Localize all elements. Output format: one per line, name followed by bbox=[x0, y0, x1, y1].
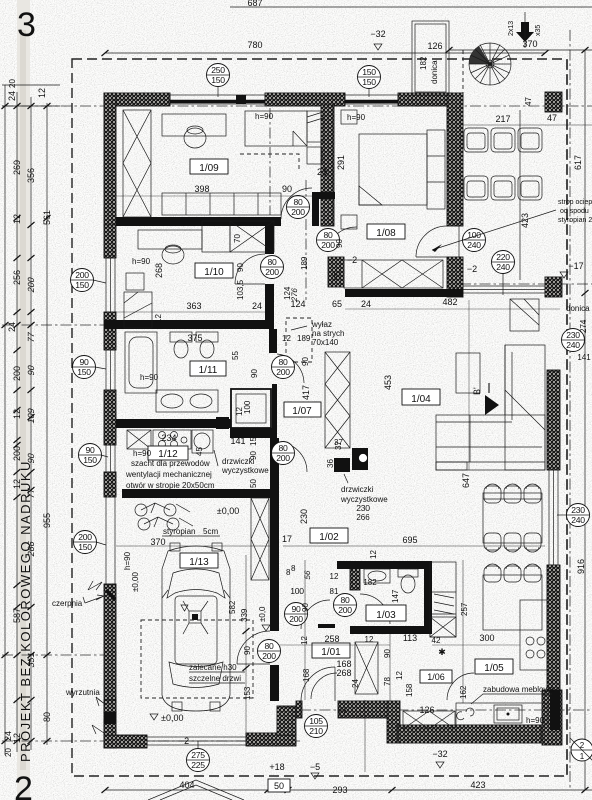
svg-text:105: 105 bbox=[309, 716, 323, 726]
garage bottom wall left stub bbox=[104, 735, 147, 748]
circle label 220/240 bbox=[492, 251, 515, 296]
svg-text:24: 24 bbox=[7, 91, 17, 101]
room label 1/01 bbox=[312, 643, 350, 658]
axis dash-dot left y325 bbox=[2, 324, 105, 326]
svg-text:582: 582 bbox=[228, 600, 237, 614]
svg-text:80: 80 bbox=[268, 257, 277, 267]
svg-text:drzwiczki: drzwiczki bbox=[222, 457, 255, 466]
svg-text:257: 257 bbox=[460, 602, 469, 616]
svg-text:268: 268 bbox=[336, 668, 351, 678]
door 1/03 bbox=[360, 594, 390, 624]
svg-text:wentylacji mechanicznej: wentylacji mechanicznej bbox=[125, 470, 212, 479]
living room coffee table bbox=[456, 353, 480, 393]
svg-text:65: 65 bbox=[333, 271, 342, 280]
svg-text:h=90: h=90 bbox=[255, 112, 274, 121]
svg-text:182: 182 bbox=[363, 578, 377, 587]
kitchen bottom wall step bbox=[387, 701, 400, 743]
bathroom 1/03 top wall bbox=[337, 561, 432, 569]
circle label 80/200 door 1/08 bbox=[317, 229, 340, 252]
1/09 wardrobe with X bbox=[123, 110, 151, 217]
svg-text:PROJEKT BEZ KOLOROWEGO NADRUKU: PROJEKT BEZ KOLOROWEGO NADRUKU bbox=[18, 460, 33, 762]
corridor left wall below door bbox=[272, 472, 277, 498]
1/09 nightstand bbox=[307, 147, 322, 164]
svg-text:90: 90 bbox=[86, 445, 95, 455]
svg-text:200: 200 bbox=[276, 367, 290, 377]
svg-text:−5: −5 bbox=[310, 762, 320, 772]
svg-text:80: 80 bbox=[279, 357, 288, 367]
svg-text:wyczystkowe: wyczystkowe bbox=[221, 466, 269, 475]
garage shaft X tall bbox=[251, 498, 269, 580]
bottom gable sketch bbox=[148, 780, 244, 800]
1/11 wc bbox=[170, 332, 192, 342]
svg-text:339: 339 bbox=[240, 608, 249, 622]
living room sideboard bbox=[510, 299, 539, 331]
svg-text:55: 55 bbox=[231, 351, 240, 360]
left exterior wall garage pier mid bbox=[104, 584, 116, 748]
svg-text:150: 150 bbox=[211, 75, 225, 85]
svg-text:donica: donica bbox=[566, 304, 590, 313]
left exterior wall pier between windows bbox=[104, 312, 116, 350]
right dim chain 916 bbox=[584, 293, 586, 790]
left chain ticks bbox=[2, 103, 9, 109]
svg-text:B': B' bbox=[472, 387, 482, 395]
circle label 275/225 garage door bbox=[187, 741, 210, 772]
svg-text:12: 12 bbox=[12, 214, 22, 224]
kitchen table 2 bbox=[483, 575, 542, 630]
svg-text:−2: −2 bbox=[179, 736, 189, 746]
door swing 1/06 kitchen bbox=[447, 673, 474, 700]
window 150/150 top (1/08) bbox=[345, 95, 398, 104]
door 1/06 to 1/05 bbox=[311, 673, 337, 699]
svg-text:1/08: 1/08 bbox=[376, 228, 396, 239]
terrace edge line x459 bbox=[458, 106, 460, 284]
svg-text:1/02: 1/02 bbox=[319, 532, 339, 543]
svg-text:80: 80 bbox=[42, 712, 52, 722]
stair arrow black bbox=[516, 22, 534, 42]
section circle 2/1 bottom right bbox=[571, 739, 592, 761]
room label 1/10 bbox=[195, 263, 233, 278]
room label 1/04 bbox=[402, 389, 440, 405]
svg-text:3: 3 bbox=[17, 6, 36, 44]
garage dashed slab bbox=[141, 620, 253, 698]
interior dim chain 1/06 x390 bbox=[389, 634, 391, 701]
pier left of 1/08 wardrobe bbox=[328, 257, 344, 287]
svg-text:5cm: 5cm bbox=[203, 527, 218, 536]
1/09 chair bbox=[184, 128, 206, 148]
svg-text:drzwiczki: drzwiczki bbox=[341, 485, 374, 494]
svg-text:24: 24 bbox=[3, 731, 13, 741]
svg-text:12: 12 bbox=[282, 334, 291, 343]
svg-text:✱: ✱ bbox=[438, 647, 446, 657]
svg-text:h=90: h=90 bbox=[347, 113, 366, 122]
circle label 80/200 door 1/11 bbox=[272, 356, 295, 379]
living room sofa bbox=[436, 345, 545, 470]
svg-text:±0,00: ±0,00 bbox=[131, 571, 140, 592]
svg-text:182: 182 bbox=[419, 56, 428, 70]
svg-text:291: 291 bbox=[336, 155, 346, 170]
svg-text:780: 780 bbox=[247, 40, 262, 50]
garage car bbox=[162, 543, 230, 711]
svg-text:styropian 2: styropian 2 bbox=[558, 217, 592, 224]
room label 1/08 bbox=[367, 224, 405, 239]
svg-text:561: 561 bbox=[42, 210, 52, 225]
svg-text:2: 2 bbox=[14, 770, 33, 800]
svg-text:275: 275 bbox=[191, 750, 205, 760]
circle label 105/210 entrance bbox=[305, 715, 328, 738]
svg-text:12: 12 bbox=[330, 572, 339, 581]
svg-text:81: 81 bbox=[330, 587, 339, 596]
living dim line x469 bbox=[468, 300, 470, 470]
svg-text:78: 78 bbox=[383, 677, 392, 686]
svg-text:90: 90 bbox=[236, 263, 245, 272]
flue circle bbox=[359, 454, 368, 463]
svg-text:strop ocieplony: strop ocieplony bbox=[558, 199, 592, 206]
top dimension 780 bbox=[105, 52, 545, 54]
svg-text:113: 113 bbox=[403, 633, 417, 643]
svg-text:h=90: h=90 bbox=[140, 373, 159, 382]
svg-text:24: 24 bbox=[7, 322, 17, 332]
interior dim chain garage x246 bbox=[245, 555, 247, 735]
svg-text:230: 230 bbox=[356, 503, 370, 513]
window 200/150 left (1/10) bbox=[106, 258, 115, 312]
svg-text:240: 240 bbox=[571, 515, 585, 525]
svg-text:80: 80 bbox=[341, 595, 350, 605]
1/10 desk bbox=[138, 230, 202, 249]
left dim chain lines bbox=[4, 85, 6, 755]
svg-text:1/09: 1/09 bbox=[199, 163, 219, 174]
door 1/07 to 1/02 bbox=[277, 442, 307, 472]
svg-text:453: 453 bbox=[383, 375, 393, 390]
svg-text:217: 217 bbox=[495, 114, 510, 124]
svg-text:220: 220 bbox=[496, 252, 510, 262]
svg-text:donica: donica bbox=[430, 60, 439, 84]
svg-text:150: 150 bbox=[362, 67, 376, 77]
svg-text:647: 647 bbox=[461, 473, 471, 488]
circle label 230/240 right up bbox=[562, 329, 585, 352]
svg-text:na strych: na strych bbox=[312, 329, 344, 338]
svg-text:12: 12 bbox=[365, 635, 374, 644]
svg-text:−32: −32 bbox=[370, 29, 385, 39]
czerpnia grille left garage bbox=[106, 497, 115, 585]
top cut-off dimension line bbox=[230, 6, 592, 8]
attic hatch dashed bbox=[286, 318, 312, 362]
svg-text:−17: −17 bbox=[568, 261, 583, 271]
svg-text:126: 126 bbox=[427, 41, 442, 51]
interior dim chain porch x365 bbox=[364, 700, 366, 772]
svg-text:150: 150 bbox=[83, 455, 97, 465]
bathroom 1/03 bottom wall bbox=[350, 626, 432, 634]
svg-text:225: 225 bbox=[191, 760, 205, 770]
axis dash-dot bottom wall bbox=[2, 740, 300, 742]
svg-text:189: 189 bbox=[297, 334, 311, 343]
wall between 1/01 and 1/03 (hatched) bbox=[350, 562, 360, 590]
svg-text:1/01: 1/01 bbox=[321, 647, 341, 658]
svg-text:695: 695 bbox=[402, 535, 417, 545]
svg-text:24: 24 bbox=[361, 299, 371, 309]
svg-text:200: 200 bbox=[262, 651, 276, 661]
svg-text:90: 90 bbox=[383, 649, 392, 658]
svg-text:141: 141 bbox=[230, 436, 245, 446]
1/06 wardrobe X bbox=[355, 642, 378, 694]
svg-text:234: 234 bbox=[161, 433, 176, 443]
axis dash-dot corridor vertical x306 bbox=[305, 180, 307, 300]
svg-text:200: 200 bbox=[26, 276, 36, 293]
svg-text:147: 147 bbox=[391, 589, 400, 603]
svg-text:398: 398 bbox=[194, 184, 209, 194]
wall bottom of 1/08 bbox=[345, 289, 463, 297]
svg-text:−32: −32 bbox=[432, 749, 447, 759]
left exterior wall pier at garage top bbox=[104, 472, 116, 497]
1/10 bed bbox=[124, 292, 152, 328]
kitchen small symbol bbox=[457, 708, 474, 720]
svg-text:zalecane h30: zalecane h30 bbox=[189, 663, 237, 672]
svg-text:24: 24 bbox=[351, 679, 360, 688]
circle label 80/200 garage door bbox=[258, 640, 281, 663]
shaft bottom wall bbox=[230, 428, 277, 438]
interior dim chain 1/01 x305 bbox=[304, 560, 306, 700]
bottom right corner pier bbox=[542, 690, 562, 745]
svg-text:356: 356 bbox=[26, 168, 36, 183]
scan noise band left bbox=[17, 0, 30, 800]
svg-text:268: 268 bbox=[154, 263, 164, 278]
svg-text:szczelne drzwi: szczelne drzwi bbox=[189, 674, 241, 683]
svg-text:2x13: 2x13 bbox=[508, 21, 515, 36]
svg-text:240: 240 bbox=[467, 240, 481, 250]
svg-text:1/11: 1/11 bbox=[199, 365, 218, 376]
svg-text:1/03: 1/03 bbox=[376, 610, 396, 621]
svg-text:230: 230 bbox=[299, 509, 309, 524]
svg-text:42: 42 bbox=[432, 636, 441, 645]
svg-text:230: 230 bbox=[571, 505, 585, 515]
right exterior wall upper (living) bbox=[547, 370, 560, 470]
svg-text:240: 240 bbox=[566, 340, 580, 350]
svg-text:300: 300 bbox=[479, 633, 494, 643]
svg-text:266: 266 bbox=[356, 513, 370, 522]
door 1/11 bbox=[277, 354, 304, 383]
svg-text:12: 12 bbox=[37, 88, 47, 98]
svg-text:916: 916 bbox=[576, 559, 586, 574]
1/09 bed headboard bbox=[307, 111, 323, 142]
kitchen table chairs bbox=[484, 564, 541, 582]
circle label 250/150 bbox=[207, 64, 230, 98]
svg-text:50: 50 bbox=[274, 781, 284, 791]
1/12 kitchen sink with X bbox=[127, 430, 151, 449]
1/09 dashed furniture bbox=[240, 154, 299, 170]
svg-text:423: 423 bbox=[470, 780, 485, 790]
svg-text:wyrzutnia: wyrzutnia bbox=[65, 688, 100, 697]
svg-text:od spodu: od spodu bbox=[560, 208, 589, 215]
svg-text:70: 70 bbox=[233, 234, 242, 243]
bottom dimension line bbox=[105, 789, 592, 791]
doormat X at terrace door bottom bbox=[403, 711, 455, 729]
terrace armchairs row 1 bbox=[464, 128, 542, 152]
svg-text:200: 200 bbox=[338, 605, 352, 615]
interior wall right of 1/10 upper bbox=[265, 217, 274, 254]
terrace pier mid right bbox=[545, 277, 562, 297]
donica planter top bbox=[412, 21, 449, 95]
svg-text:274: 274 bbox=[579, 319, 588, 333]
garage right wall bbox=[270, 438, 279, 631]
interior wall right of 1/10 lower bbox=[265, 284, 274, 329]
svg-text:158: 158 bbox=[405, 683, 414, 697]
svg-text:200: 200 bbox=[276, 453, 290, 463]
1/10 chair bbox=[162, 246, 184, 264]
bathroom 1/03 right wall bbox=[424, 561, 432, 634]
svg-text:100: 100 bbox=[290, 586, 304, 596]
offset wall piece to 1/08 bbox=[319, 192, 335, 199]
svg-text:czerpnia: czerpnia bbox=[52, 599, 83, 608]
room 1/08 left wall bbox=[321, 105, 334, 226]
svg-text:955: 955 bbox=[42, 513, 52, 528]
dining chairs bottom bbox=[484, 533, 541, 552]
dashed vertical right terrace bbox=[566, 60, 568, 776]
lintel between 1/02 and 1/01 bbox=[318, 624, 335, 628]
svg-text:482: 482 bbox=[442, 297, 457, 307]
top exterior wall segment C bbox=[398, 93, 449, 106]
svg-text:150: 150 bbox=[77, 367, 91, 377]
svg-text:12: 12 bbox=[369, 550, 378, 559]
interior wall bottom of 1/09 bbox=[116, 217, 281, 226]
svg-text:363: 363 bbox=[186, 301, 201, 311]
bathroom bottom wall bbox=[116, 419, 231, 428]
svg-text:90: 90 bbox=[335, 239, 344, 248]
1/07 corridor wardrobe X bbox=[325, 352, 350, 448]
svg-text:200: 200 bbox=[291, 207, 305, 217]
flue block B bbox=[352, 448, 368, 470]
svg-text:162: 162 bbox=[459, 685, 468, 699]
axis dash-dot right vertical bbox=[569, 30, 571, 790]
duct shaft box walls bbox=[231, 389, 271, 428]
dining table bbox=[483, 493, 542, 543]
right exterior wall lower (kitchen) bbox=[547, 565, 560, 690]
garage door opening bbox=[147, 737, 246, 745]
svg-text:80: 80 bbox=[324, 230, 333, 240]
room label 1/13 bbox=[180, 553, 218, 568]
svg-text:styropian: styropian bbox=[163, 527, 195, 536]
roof outline dashed rectangle bbox=[72, 59, 567, 776]
circle label 200/150 left1 bbox=[71, 269, 107, 292]
svg-text:±0,00: ±0,00 bbox=[161, 713, 183, 723]
svg-text:±0,00: ±0,00 bbox=[217, 506, 239, 516]
main entrance door bbox=[301, 667, 335, 701]
svg-text:h=90: h=90 bbox=[123, 551, 132, 570]
room label 1/12 bbox=[148, 446, 188, 460]
svg-text:20: 20 bbox=[8, 79, 17, 88]
dashed line top terrace bbox=[462, 50, 464, 106]
svg-text:szacht dla przewodów: szacht dla przewodów bbox=[131, 459, 210, 468]
svg-text:37: 37 bbox=[334, 438, 343, 447]
svg-text:45: 45 bbox=[195, 447, 204, 456]
svg-text:687: 687 bbox=[247, 0, 262, 8]
svg-text:100: 100 bbox=[243, 400, 252, 414]
svg-text:103,5: 103,5 bbox=[236, 279, 245, 300]
axis dash-dot x270 bbox=[269, 108, 271, 215]
svg-text:80: 80 bbox=[265, 641, 274, 651]
corridor 1/07 left wall upper bbox=[269, 329, 277, 353]
circle label 80/200 door 1/09 bbox=[287, 196, 310, 219]
1/08 bed bbox=[359, 134, 427, 205]
svg-text:90: 90 bbox=[250, 369, 259, 378]
svg-text:90: 90 bbox=[292, 604, 301, 614]
svg-text:1/13: 1/13 bbox=[189, 557, 209, 568]
svg-text:250: 250 bbox=[211, 65, 225, 75]
1/11 bidet bbox=[196, 332, 218, 342]
svg-text:±0,0: ±0,0 bbox=[258, 606, 267, 622]
svg-text:65: 65 bbox=[332, 299, 342, 309]
right dim chain 617 bbox=[584, 50, 586, 293]
left exterior wall upper (room 1/09) bbox=[104, 93, 116, 225]
svg-text:617: 617 bbox=[573, 155, 583, 170]
svg-text:150: 150 bbox=[362, 77, 376, 87]
svg-text:200: 200 bbox=[12, 446, 22, 461]
room label 1/07 bbox=[284, 402, 321, 417]
B' section marker bbox=[485, 395, 499, 415]
room label 1/11 bbox=[190, 361, 226, 376]
axis dash-dot entrance bbox=[300, 709, 592, 711]
circle label 90/150 left1 bbox=[73, 356, 107, 379]
svg-text:wyłaz: wyłaz bbox=[311, 320, 332, 329]
window 90/150 left (1/12) bbox=[106, 445, 115, 472]
svg-text:h=90: h=90 bbox=[133, 449, 152, 458]
svg-text:23: 23 bbox=[317, 167, 327, 177]
left exterior wall 1/10 upper bbox=[104, 225, 116, 258]
svg-text:1/07: 1/07 bbox=[292, 406, 312, 417]
flue block A bbox=[334, 458, 350, 472]
svg-text:240: 240 bbox=[496, 262, 510, 272]
svg-text:1/05: 1/05 bbox=[484, 663, 504, 674]
svg-text:h=90: h=90 bbox=[132, 257, 151, 266]
entrance wall left of door bbox=[296, 701, 302, 718]
svg-text:20: 20 bbox=[4, 748, 13, 757]
door 1/10 bbox=[235, 254, 265, 284]
svg-text:12: 12 bbox=[300, 636, 309, 645]
svg-text:1/04: 1/04 bbox=[411, 394, 431, 405]
circle label 80/200 door 1/07 bbox=[272, 442, 295, 465]
room label 1/09 bbox=[190, 159, 228, 174]
svg-text:417: 417 bbox=[301, 385, 311, 400]
room label 1/02 bbox=[310, 528, 348, 543]
1/11 bathtub bbox=[125, 332, 157, 393]
window 90/150 left (1/11) bbox=[106, 350, 115, 390]
entrance porch vertical wall bbox=[277, 706, 296, 735]
glazed wall 220/240 between terrace and living room bbox=[463, 286, 545, 293]
top right dimension 370 bbox=[449, 49, 592, 51]
room label 1/03 bbox=[366, 605, 406, 621]
svg-text:24: 24 bbox=[252, 301, 262, 311]
1/12 washer bbox=[192, 430, 213, 453]
room label 1/05 bbox=[475, 659, 513, 674]
garage floor drain bbox=[189, 611, 201, 623]
svg-text:80: 80 bbox=[294, 197, 303, 207]
svg-text:90: 90 bbox=[243, 646, 252, 655]
svg-text:370: 370 bbox=[150, 537, 165, 547]
interior wall top of bathroom 1/11 bbox=[104, 320, 274, 329]
1/11 corner dark box bbox=[216, 417, 229, 429]
1/08 wardrobe strip with X bbox=[344, 260, 443, 288]
terrace armchairs row 2 bbox=[464, 176, 542, 200]
1/10 wardrobe with X bbox=[230, 221, 274, 252]
svg-text:150: 150 bbox=[78, 542, 92, 552]
window 250/150 top (1/09) bbox=[170, 95, 265, 104]
svg-text:80: 80 bbox=[279, 443, 288, 453]
svg-text:zabudowa meblowa: zabudowa meblowa bbox=[483, 685, 554, 694]
door 1/08 terrace bbox=[416, 226, 447, 257]
1/09 desk bbox=[162, 114, 226, 136]
circle label 80/200 door 1/03 bbox=[334, 594, 357, 617]
svg-text:168: 168 bbox=[302, 668, 311, 682]
svg-text:8: 8 bbox=[291, 564, 296, 573]
door 1/09 bbox=[281, 188, 312, 219]
